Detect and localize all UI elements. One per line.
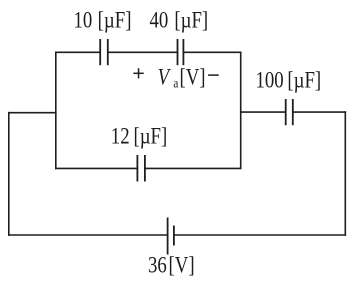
polarity minus sign for Va	[208, 74, 219, 76]
wire left stub to outer loop	[9, 112, 56, 114]
wire inner left vertical	[55, 52, 57, 168]
svg-text:12[µF]: 12[µF]	[111, 123, 167, 150]
wire top rail right segment	[183, 51, 240, 53]
wire right stub left segment	[241, 111, 286, 113]
polarity plus sign for Va	[133, 68, 143, 78]
wire top rail middle segment	[108, 51, 178, 53]
wire top rail left segment	[56, 51, 100, 53]
svg-text:10[µF]: 10[µF]	[74, 6, 132, 33]
svg-text:36[V]: 36[V]	[148, 251, 195, 278]
wire bottom rail right segment	[174, 234, 345, 236]
wire middle rail right segment	[145, 167, 241, 169]
svg-text:40[µF]: 40[µF]	[150, 6, 209, 33]
wire right stub right segment	[293, 111, 346, 113]
capacitor C4 12uF plates	[137, 155, 145, 182]
svg-text:100[µF]: 100[µF]	[256, 66, 322, 93]
capacitor C2 40uF plates	[178, 39, 184, 65]
battery V1 36V plates	[168, 218, 174, 255]
wire middle rail left segment	[56, 167, 138, 169]
wire outer left vertical	[8, 113, 10, 235]
wire inner right vertical	[240, 52, 242, 168]
wire outer right vertical	[344, 112, 346, 235]
wire bottom rail left segment	[9, 234, 168, 236]
capacitor C3 100uF plates	[286, 99, 293, 125]
capacitor C1 10uF plates	[100, 39, 108, 65]
svg-text:Va[V]: Va[V]	[158, 64, 206, 91]
